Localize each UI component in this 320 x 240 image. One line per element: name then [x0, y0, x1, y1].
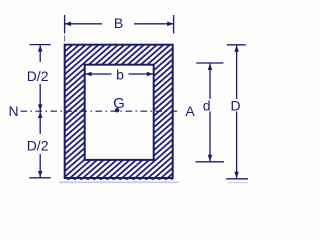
svg-text:b: b — [116, 66, 124, 82]
dimension B line right segment — [134, 23, 174, 25]
dimension D bottom cap — [226, 178, 248, 180]
arrowhead B left — [65, 22, 71, 27]
left dimension top cap — [30, 44, 51, 46]
dimension d bottom cap — [196, 161, 225, 163]
dimension d line segments — [209, 64, 211, 99]
arrowhead down onto centerline (upper) — [38, 104, 43, 110]
arrowhead D down — [234, 172, 239, 178]
dimension D line segments — [236, 45, 238, 99]
arrowhead B right — [167, 22, 173, 27]
svg-text:D/2: D/2 — [27, 137, 49, 153]
arrowhead d up — [208, 64, 213, 70]
left dimension line segments — [39, 45, 41, 62]
dimension B extension tick right — [173, 15, 175, 34]
arrowhead up at top cap — [38, 45, 43, 51]
faint ghost artifact line under beam bottom — [59, 181, 179, 183]
arrowhead d down — [208, 155, 213, 161]
arrowhead down at bottom cap — [38, 171, 43, 177]
arrowhead b right — [147, 72, 153, 77]
faint extension remnant toward top-left corner — [64, 36, 66, 42]
arrowhead b left — [85, 72, 91, 77]
inner rectangle outline (hollow core) — [85, 65, 154, 160]
svg-text:A: A — [185, 103, 195, 119]
dimension b line left segment — [85, 73, 111, 75]
arrowhead up from below centerline (lower) — [38, 112, 43, 118]
svg-text:B: B — [114, 15, 123, 31]
dimension D top cap — [227, 44, 246, 46]
svg-text:d: d — [203, 97, 211, 113]
dimension B line left segment — [65, 23, 102, 25]
svg-text:D: D — [231, 97, 241, 113]
faint ghost artifact under D bottom cap — [228, 182, 248, 184]
hatched wall region (ring between outer and inner rectangles) — [65, 45, 173, 180]
dimension d top cap — [196, 62, 223, 64]
dimension b line right segment — [129, 73, 154, 75]
svg-text:N: N — [9, 103, 19, 119]
arrowhead D up — [234, 45, 239, 51]
dimension B extension tick left — [64, 15, 66, 34]
neutral axis centerline N-A (dash-dot) — [21, 110, 180, 112]
left dimension bottom cap — [30, 177, 51, 179]
svg-text:D/2: D/2 — [27, 68, 49, 84]
outer rectangle outline — [65, 45, 173, 178]
centroid dot — [115, 108, 119, 112]
